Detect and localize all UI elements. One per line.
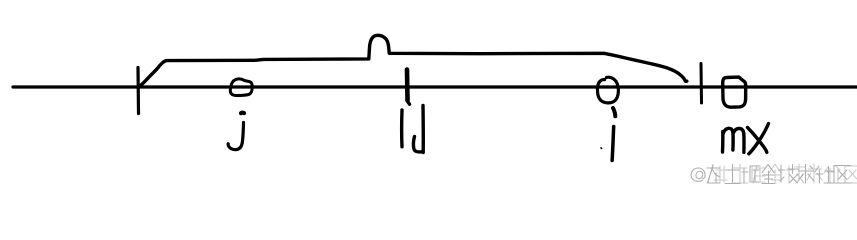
brace over range with bump: [139, 35, 687, 87]
number line: [13, 85, 857, 88]
土: [725, 165, 740, 184]
社: [815, 166, 834, 183]
金: [762, 165, 775, 184]
tick id: [405, 70, 410, 101]
稀: [707, 165, 720, 184]
watermark (faint overlapped text, bottom right): [691, 164, 857, 184]
掘: [742, 166, 760, 183]
术: [798, 165, 814, 184]
label mx: [723, 128, 745, 152]
watermark back layer (offset copy): [707, 164, 857, 183]
label i: [613, 108, 615, 116]
label id: [407, 101, 409, 104]
技: [779, 165, 800, 184]
tick left (start of range): [136, 68, 140, 114]
blob marker at j: [230, 79, 252, 96]
tick right (before mx): [700, 64, 704, 104]
@: [696, 171, 703, 178]
区: [834, 166, 852, 184]
blob marker at mx (rounded square): [723, 77, 746, 107]
stray dot: [600, 147, 603, 150]
label j: [241, 111, 244, 116]
watermark front layer "@ + 8 glyphs": [691, 165, 851, 184]
blob marker at i (circle): [597, 77, 618, 103]
